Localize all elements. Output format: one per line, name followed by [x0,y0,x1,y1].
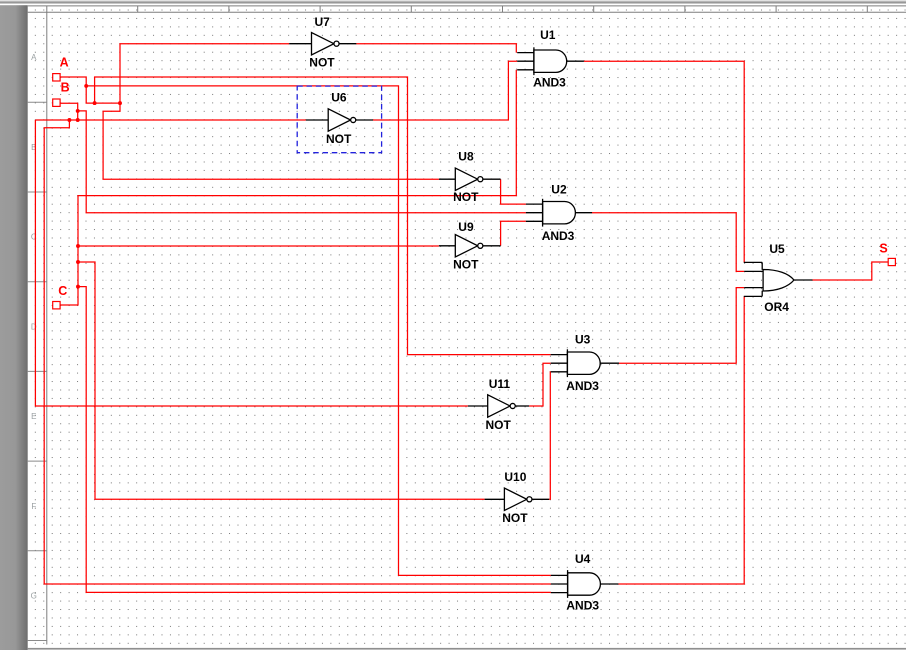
svg-text:C: C [58,284,67,298]
svg-text:B: B [61,81,70,95]
svg-text:U4: U4 [575,552,591,566]
svg-text:G: G [31,592,37,601]
svg-text:OR4: OR4 [764,300,789,314]
svg-text:U8: U8 [458,150,474,164]
svg-text:NOT: NOT [502,511,528,525]
svg-text:NOT: NOT [486,418,512,432]
svg-text:A: A [31,53,37,62]
svg-text:AND3: AND3 [566,599,599,613]
svg-text:S: S [879,242,887,256]
svg-text:U7: U7 [315,15,331,29]
svg-text:AND3: AND3 [542,229,575,243]
svg-text:U11: U11 [489,377,511,391]
svg-text:U3: U3 [575,332,591,346]
svg-text:NOT: NOT [326,132,352,146]
svg-text:E: E [31,412,36,421]
svg-text:U1: U1 [540,28,556,42]
svg-text:NOT: NOT [453,257,479,271]
svg-text:U9: U9 [458,220,474,234]
svg-text:AND3: AND3 [566,379,599,393]
svg-text:U2: U2 [551,183,567,197]
svg-text:U10: U10 [504,470,526,484]
svg-text:A: A [60,56,69,70]
svg-text:F: F [31,502,36,511]
svg-text:NOT: NOT [309,55,335,69]
svg-text:U5: U5 [769,242,785,256]
svg-text:U6: U6 [331,91,347,105]
svg-text:NOT: NOT [453,190,479,204]
svg-text:AND3: AND3 [533,76,566,90]
